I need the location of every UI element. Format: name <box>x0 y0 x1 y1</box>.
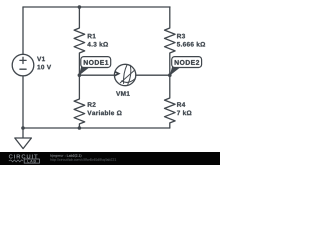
label V1 <box>37 57 45 61</box>
node NODE2 box <box>172 57 202 68</box>
label R1 <box>88 34 96 38</box>
label R3 <box>177 34 185 39</box>
footer author text <box>50 154 65 157</box>
node NODE1 box <box>81 57 111 68</box>
label V1 value <box>37 65 51 70</box>
label R1 value <box>87 42 108 47</box>
label R4 <box>177 102 185 106</box>
junction bottom middle <box>78 126 82 130</box>
wire voltmeter to node2 <box>136 74 170 76</box>
voltmeter arrow glyph <box>115 71 121 77</box>
label R4 value <box>177 110 191 115</box>
junction bottom left <box>21 126 25 130</box>
resistor R3 <box>165 7 176 75</box>
label R2 value <box>87 110 121 115</box>
junction node A <box>78 73 82 77</box>
node NODE2 tail <box>170 66 181 75</box>
label R2 <box>88 102 96 107</box>
wire node1 to voltmeter <box>79 74 114 76</box>
node NODE2 text <box>175 60 200 65</box>
ground <box>15 128 32 149</box>
logo CIRCUIT text <box>9 154 38 158</box>
resistor R1 <box>74 7 85 75</box>
resistor R2 <box>74 75 85 128</box>
voltage source V1 <box>12 54 34 76</box>
voltmeter VM1 <box>114 64 135 85</box>
logo LAB box <box>24 159 39 163</box>
wire bottom rail <box>23 127 170 129</box>
logo CircuitLab squiggle <box>9 160 23 162</box>
footer bar <box>0 152 220 165</box>
logo LAB text <box>27 160 35 162</box>
footer title text <box>67 154 82 157</box>
label VM1 <box>116 91 130 95</box>
wire left column upper <box>22 7 24 54</box>
resistor R4 <box>165 75 176 128</box>
wire left column lower <box>22 76 24 128</box>
node NODE1 text <box>84 60 109 65</box>
junction node B <box>168 73 172 77</box>
junction top middle <box>78 5 82 9</box>
wire top rail <box>23 6 170 8</box>
footer url text <box>50 158 116 161</box>
label R3 value <box>177 42 205 47</box>
node NODE1 tail <box>79 66 90 75</box>
